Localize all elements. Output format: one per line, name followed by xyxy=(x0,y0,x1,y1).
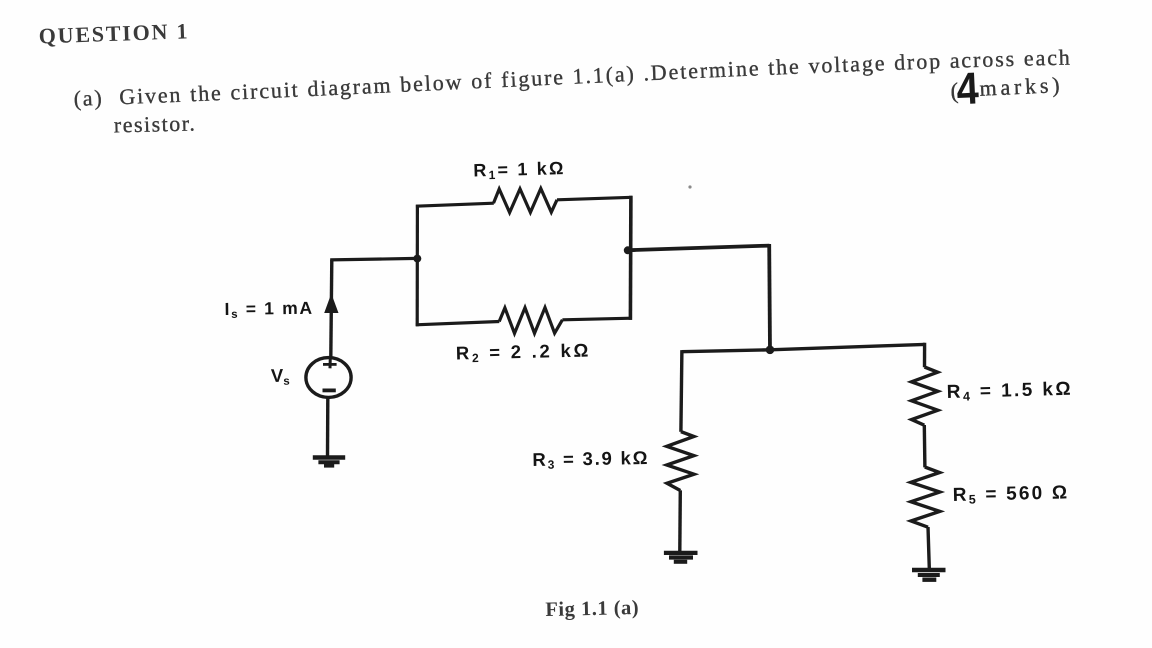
resistor R5 zigzag xyxy=(911,467,940,527)
caption Fig 1.1 (a) xyxy=(545,597,639,621)
label R5 value xyxy=(953,482,1070,507)
wire: node C right horizontal xyxy=(770,344,925,349)
wire: R3 to ground xyxy=(678,490,682,551)
svg-text:Vs: Vs xyxy=(271,365,290,388)
svg-text:(a) Given the circuit diagram: (a) Given the circuit diagram below of f… xyxy=(73,45,1072,111)
source Vs (circle with + and -) xyxy=(306,357,351,398)
svg-text:R1= 1 kΩ: R1= 1 kΩ xyxy=(473,158,566,182)
wire: right corner down to node C xyxy=(767,244,772,351)
resistor R4 zigzag xyxy=(912,367,938,425)
wire: right branch down to R4 xyxy=(923,343,926,367)
label R4 value xyxy=(946,379,1073,404)
title QUESTION 1 xyxy=(38,18,189,48)
question line 2: resistor. xyxy=(114,110,197,137)
label R1 value xyxy=(473,158,566,182)
svg-text:Is = 1 mA: Is = 1 mA xyxy=(224,298,314,321)
svg-text:R5 = 560 Ω: R5 = 560 Ω xyxy=(953,482,1070,507)
wire: bottom branch right segment xyxy=(562,318,632,320)
label R3 value xyxy=(532,447,649,472)
resistor R2 zigzag xyxy=(499,308,562,334)
svg-text:R2 = 2 .2 kΩ: R2 = 2 .2 kΩ xyxy=(456,339,592,365)
resistor R1 zigzag xyxy=(494,189,558,213)
wire: source top vertical xyxy=(331,260,332,357)
node B (right node of parallel pair) xyxy=(624,246,632,254)
current arrow Is (on source top wire) xyxy=(324,294,338,314)
node C (junction of R3/R4 branches) xyxy=(766,346,775,355)
node A (left node of parallel pair) xyxy=(413,255,421,263)
wire: top branch right segment xyxy=(557,197,632,200)
svg-text:R4 = 1.5 kΩ: R4 = 1.5 kΩ xyxy=(946,379,1073,404)
ground under R5 xyxy=(912,570,946,580)
wire: top branch left segment xyxy=(416,203,494,206)
svg-text:marks): marks) xyxy=(979,72,1064,101)
wire: R4 to R5 xyxy=(923,425,927,467)
svg-text:R3 = 3.9 kΩ: R3 = 3.9 kΩ xyxy=(532,447,649,472)
wire: bottom branch left segment xyxy=(416,322,500,325)
svg-text:4: 4 xyxy=(955,62,979,114)
label Vs xyxy=(271,365,290,388)
wire: node B to right corner xyxy=(629,246,769,251)
label R2 value xyxy=(456,339,592,365)
wire: R5 to ground xyxy=(928,527,929,569)
resistor R3 zigzag xyxy=(667,432,694,491)
svg-text:Fig 1.1 (a): Fig 1.1 (a) xyxy=(545,597,639,621)
wire: source to ground xyxy=(326,399,330,457)
svg-text:QUESTION 1: QUESTION 1 xyxy=(38,18,189,48)
stray scan dot xyxy=(688,185,691,188)
label Is = 1 mA xyxy=(224,298,314,321)
ground under R3 xyxy=(664,553,698,562)
ground under source xyxy=(313,458,345,466)
svg-text:resistor.: resistor. xyxy=(114,110,197,137)
wire: parallel box left edge xyxy=(416,205,419,327)
wire: left branch down to R3 xyxy=(681,350,682,432)
marks annotation (4 marks) xyxy=(949,59,1064,115)
wire: source to node A horizontal xyxy=(330,258,417,260)
wire: node C left horizontal xyxy=(682,350,770,352)
wire: parallel box right edge xyxy=(629,196,633,320)
